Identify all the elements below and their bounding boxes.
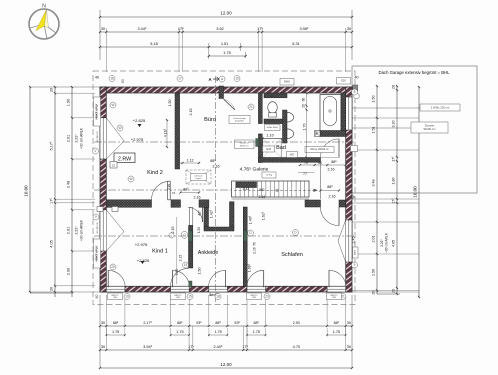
exterior wall top (100, 87, 352, 93)
svg-text:Bad: Bad (276, 145, 286, 151)
svg-text:WD: WD (270, 96, 274, 98)
svg-text:20: 20 (50, 287, 54, 291)
WC toilet (268, 102, 278, 114)
svg-text:5.43: 5.43 (243, 187, 250, 191)
svg-text:4.70: 4.70 (293, 345, 300, 349)
svg-text:1.50: 1.50 (175, 269, 179, 276)
svg-text:2.00: 2.00 (67, 268, 71, 275)
svg-text:1.50: 1.50 (198, 267, 202, 274)
interior wall V4 (Ankleide|Schlafen) (243, 207, 247, 286)
svg-text:2.93: 2.93 (293, 321, 300, 325)
svg-text:30: 30 (101, 27, 105, 31)
svg-text:1.50: 1.50 (372, 95, 376, 102)
svg-text:2.45: 2.45 (352, 236, 356, 243)
svg-text:12.00: 12.00 (220, 11, 232, 16)
svg-text:70: 70 (304, 161, 308, 165)
interior wall V5 (Buero|Bad) upper (258, 93, 262, 124)
green frame marker V4 (244, 231, 247, 241)
svg-text:8: 8 (354, 90, 356, 94)
svg-text:93⁵: 93⁵ (234, 321, 240, 325)
door Schlafen (320, 207, 339, 226)
svg-text:74: 74 (172, 191, 176, 195)
svg-text:1.50: 1.50 (372, 269, 376, 276)
small crossed box left of tub hatch (315, 131, 321, 137)
svg-text:5.17⁵: 5.17⁵ (50, 141, 54, 150)
Bad bottom wall H3 (258, 158, 320, 163)
svg-text:30: 30 (347, 321, 351, 325)
svg-text:20: 20 (392, 289, 396, 293)
svg-text:1.50: 1.50 (168, 99, 172, 106)
svg-text:Schlafen: Schlafen (281, 252, 303, 258)
svg-text:1.75: 1.75 (333, 330, 340, 334)
door arc bottom o4 (247, 270, 264, 287)
svg-text:3.98⁵: 3.98⁵ (299, 27, 308, 31)
svg-text:18: 18 (216, 295, 220, 299)
svg-text:88⁵: 88⁵ (183, 188, 189, 192)
Buero door stub / flue at top wall (219, 86, 224, 99)
interior dims (164, 92, 356, 284)
svg-text:1.80: 1.80 (392, 177, 396, 184)
svg-text:20: 20 (111, 265, 115, 269)
svg-text:88⁵: 88⁵ (113, 321, 119, 325)
svg-text:4.05: 4.05 (392, 240, 396, 247)
svg-text:2.15: 2.15 (171, 226, 175, 233)
svg-text:15: 15 (188, 295, 192, 299)
svg-text:5.31: 5.31 (292, 42, 299, 46)
svg-text:2.16: 2.16 (328, 195, 335, 199)
svg-text:30: 30 (347, 27, 351, 31)
window right wall (bath) (346, 97, 352, 130)
wall label boxes (94, 97, 101, 126)
svg-text:2.16: 2.16 (327, 168, 334, 172)
svg-text:1.12: 1.12 (186, 159, 193, 163)
svg-text:10.00: 10.00 (24, 185, 29, 197)
interior wall V5 (Buero|Bad) lower (258, 134, 262, 163)
svg-text:93⁵: 93⁵ (196, 321, 202, 325)
svg-text:60: 60 (95, 295, 99, 299)
svg-text:1.75: 1.75 (223, 51, 230, 55)
svg-text:Dachschräge: Dachschräge (233, 117, 246, 120)
window left wall W1 (100, 118, 106, 159)
svg-text:2.01: 2.01 (67, 227, 71, 234)
svg-text:60: 60 (318, 161, 322, 165)
svg-text:88⁵: 88⁵ (254, 321, 260, 325)
svg-text:4.76⁵ Galerie: 4.76⁵ Galerie (240, 167, 269, 173)
door arc bottom o5 (329, 270, 346, 287)
opening bottom wall (106, 286, 125, 292)
svg-text:2.01: 2.01 (67, 135, 71, 142)
washer box (265, 125, 281, 131)
axis line horizontal lower (94, 235, 354, 237)
roof overhang dashed outline (93, 71, 355, 305)
bottom dimension chains (99, 295, 353, 369)
svg-text:9: 9 (354, 263, 356, 267)
svg-text:19: 19 (184, 263, 188, 267)
svg-text:88⁵: 88⁵ (215, 321, 221, 325)
svg-text:+30 cm ARLK: +30 cm ARLK (80, 219, 84, 241)
svg-text:60: 60 (302, 98, 306, 102)
svg-text:17⁵: 17⁵ (257, 27, 263, 31)
svg-text:Wanne 180x80 cm: Wanne 180x80 cm (310, 149, 329, 151)
svg-text:1.50: 1.50 (67, 99, 71, 106)
stair handrail box (236, 182, 257, 188)
svg-text:begehbar: begehbar (235, 120, 244, 123)
label 2.RW (114, 153, 135, 163)
svg-text:30: 30 (101, 321, 105, 325)
svg-text:WaMa 90/60: WaMa 90/60 (267, 127, 279, 129)
svg-text:1.10: 1.10 (266, 134, 273, 138)
svg-text:1.70: 1.70 (303, 123, 307, 130)
opening bottom wall (171, 286, 190, 292)
svg-text:2.16: 2.16 (253, 247, 257, 254)
ARLK label box right (353, 247, 359, 258)
svg-text:1.51: 1.51 (221, 42, 228, 46)
svg-text:2.22⁵: 2.22⁵ (75, 226, 79, 235)
interior wall V1 (Kind2|Buero) (175, 93, 180, 169)
washbasin wall V6 (283, 110, 288, 143)
svg-text:2.22⁵: 2.22⁵ (380, 239, 384, 247)
svg-text:20: 20 (372, 291, 376, 295)
svg-text:88⁵: 88⁵ (177, 321, 183, 325)
svg-text:4.05: 4.05 (50, 240, 54, 247)
wall strip right of tub (341, 93, 346, 131)
svg-text:Kind 1: Kind 1 (152, 249, 168, 255)
svg-text:Kind 2: Kind 2 (147, 170, 163, 176)
section line A vertical (215, 76, 217, 302)
opening bottom wall (327, 286, 346, 292)
svg-text:E30: E30 (341, 79, 346, 83)
svg-text:2.17⁵: 2.17⁵ (143, 321, 152, 325)
svg-text:1.75: 1.75 (214, 330, 221, 334)
svg-text:1.42⁵: 1.42⁵ (210, 209, 214, 218)
svg-text:+30 cm ARLK: +30 cm ARLK (385, 232, 389, 253)
svg-text:RWA: RWA (284, 80, 290, 84)
svg-text:10.00: 10.00 (413, 186, 418, 198)
svg-text:42⁵: 42⁵ (198, 210, 202, 216)
right dimension chains (352, 85, 460, 298)
opening bottom wall (209, 286, 228, 292)
svg-text:5.18: 5.18 (150, 42, 157, 46)
svg-text:88⁵: 88⁵ (210, 159, 216, 163)
gallery void (Luftraum) (186, 170, 211, 184)
svg-text:1.75: 1.75 (176, 330, 183, 334)
svg-text:15: 15 (235, 77, 239, 81)
svg-text:60: 60 (121, 79, 125, 83)
svg-text:26: 26 (392, 85, 396, 89)
window right wall (schlafen) (346, 220, 352, 262)
svg-text:1.66⁵: 1.66⁵ (248, 263, 252, 272)
svg-text:17: 17 (178, 77, 182, 81)
svg-text:88⁵: 88⁵ (334, 321, 340, 325)
svg-text:88⁵: 88⁵ (327, 185, 333, 189)
left dimension chains (24, 86, 101, 297)
svg-text:4H6 BRU B: 4H6 BRU B (97, 131, 99, 143)
svg-text:1.51: 1.51 (372, 126, 376, 133)
top dimension chain (99, 10, 353, 72)
svg-text:A: A (208, 77, 211, 82)
corner marker block top-right (353, 85, 358, 91)
stair walk line (234, 189, 314, 191)
door Kind1 (171, 268, 189, 286)
exterior wall bottom (100, 286, 352, 292)
svg-text:2.16: 2.16 (193, 196, 200, 200)
svg-text:3.94⁵: 3.94⁵ (143, 345, 152, 349)
svg-text:HWKF APLK: HWKF APLK (95, 104, 99, 120)
opening bottom wall (247, 286, 266, 292)
svg-text:3x: 3x (209, 293, 213, 297)
window left wall W2 (100, 210, 106, 251)
svg-text:19: 19 (125, 295, 129, 299)
svg-text:20: 20 (50, 88, 54, 92)
svg-text:N: N (42, 4, 46, 10)
svg-text:40: 40 (95, 76, 99, 80)
axis line horizontal upper (94, 141, 354, 143)
svg-text:WD: WD (290, 154, 294, 156)
svg-text:16: 16 (110, 77, 114, 81)
compass rose (29, 4, 59, 40)
svg-text:18 Stg: 18 Stg (266, 174, 273, 177)
svg-text:3.62: 3.62 (216, 27, 223, 31)
svg-text:1.75: 1.75 (112, 330, 119, 334)
green frame marker V3 (189, 231, 192, 241)
svg-text:2.15: 2.15 (189, 108, 193, 115)
svg-text:1.40⁵: 1.40⁵ (249, 215, 253, 224)
svg-text:23: 23 (265, 295, 269, 299)
svg-text:30: 30 (347, 345, 351, 349)
door Bad (320, 139, 339, 158)
svg-text:17⁵: 17⁵ (178, 27, 184, 31)
position markers (109, 76, 115, 82)
interior wall H2 left (Galerie|Kind1) (106, 200, 151, 208)
svg-text:12.00: 12.00 (220, 362, 232, 367)
svg-text:2.15: 2.15 (179, 255, 183, 262)
axis dash-dot Kind2 bottom (94, 189, 232, 191)
svg-text:+2.975: +2.975 (135, 242, 148, 247)
stair closet walls (204, 207, 209, 227)
svg-text:2.RW: 2.RW (118, 156, 132, 162)
svg-text:2.16: 2.16 (167, 184, 171, 190)
door arc bottom o2 (173, 270, 190, 287)
svg-text:2.01: 2.01 (372, 235, 376, 242)
interior wall V3 (Kind1|Ankleide) (189, 226, 193, 269)
svg-text:4H6 BRU B: 4H6 BRU B (97, 222, 99, 234)
WC niche walls (264, 93, 287, 98)
svg-text:15: 15 (112, 163, 116, 167)
svg-text:1.62⁵: 1.62⁵ (262, 211, 266, 220)
svg-text:88⁵: 88⁵ (331, 160, 337, 164)
svg-text:20: 20 (302, 104, 306, 108)
exterior wall right (346, 87, 352, 292)
svg-text:17⁵: 17⁵ (50, 198, 54, 204)
stairs (232, 181, 319, 199)
svg-text:2.22⁵: 2.22⁵ (75, 134, 79, 143)
door to Ankleide: jamb, arc, leaf (189, 208, 193, 226)
svg-text:30: 30 (101, 345, 105, 349)
washbasin 2 (287, 129, 294, 139)
svg-text:90: 90 (315, 131, 319, 135)
green frame marker Buero/Bad (256, 139, 259, 147)
svg-text:1.50: 1.50 (197, 227, 201, 233)
green frame marker bottom wall (189, 281, 192, 287)
stair count label box (262, 172, 276, 178)
door arc bottom o3 (209, 270, 226, 287)
interior wall H2 right (Galerie|Schlafen) (305, 200, 321, 207)
svg-text:40: 40 (354, 76, 358, 80)
door Kind2 arc (152, 181, 171, 200)
shower square (263, 138, 281, 157)
svg-text:2.40⁵: 2.40⁵ (213, 345, 222, 349)
svg-text:76: 76 (253, 242, 257, 246)
bathtub (320, 95, 341, 132)
svg-text:21: 21 (341, 295, 345, 299)
svg-text:3.20: 3.20 (392, 120, 396, 127)
svg-text:34/35 cm: 34/35 cm (240, 145, 249, 147)
door arc bottom o1 (108, 270, 125, 287)
svg-text:HWKF APLK: HWKF APLK (95, 246, 99, 262)
svg-text:3.44⁵: 3.44⁵ (137, 27, 146, 31)
svg-text:ARLK: ARLK (354, 249, 357, 255)
svg-text:21: 21 (249, 105, 253, 109)
svg-text:88⁵: 88⁵ (259, 188, 265, 192)
svg-text:2.48: 2.48 (67, 181, 71, 188)
svg-text:3.48: 3.48 (372, 179, 376, 186)
svg-text:1.75: 1.75 (253, 330, 260, 334)
wall strip below tub (320, 131, 346, 137)
washbasin 1 (287, 112, 294, 122)
fitting circle markers (181, 231, 188, 238)
svg-text:Ankleide: Ankleide (198, 250, 219, 256)
exterior wall left (100, 87, 106, 292)
svg-text:+30 cm ARLK: +30 cm ARLK (80, 127, 84, 149)
svg-text:+2.975: +2.975 (131, 137, 144, 142)
appliance labels Bad (263, 146, 275, 152)
svg-text:Büro: Büro (204, 117, 216, 123)
svg-text:90x90 cm: 90x90 cm (424, 127, 437, 131)
note box: Dach Garage extensiv begruent (352, 66, 477, 193)
svg-text:Dach Garage extensiv begrünt =: Dach Garage extensiv begrünt = BHL (378, 70, 450, 75)
svg-text:+2.825: +2.825 (133, 118, 146, 123)
svg-text:2 W.Bc 100 cm: 2 W.Bc 100 cm (431, 105, 450, 109)
door Kind2 leaf (168, 181, 171, 200)
svg-text:liegen: liegen (196, 178, 202, 180)
svg-text:2.16: 2.16 (212, 165, 219, 169)
svg-text:SpM: SpM (266, 149, 271, 151)
svg-text:2.16: 2.16 (259, 195, 266, 199)
svg-text:17⁵: 17⁵ (392, 156, 396, 162)
